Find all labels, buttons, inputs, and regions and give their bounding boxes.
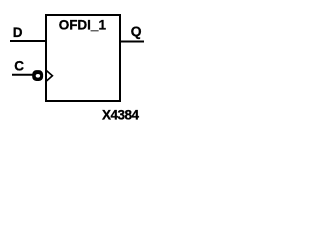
wire C input bbox=[12, 74, 34, 76]
svg-text:Q: Q bbox=[131, 24, 142, 39]
svg-text:X4384: X4384 bbox=[102, 108, 140, 123]
wire D input bbox=[10, 40, 46, 42]
svg-text:D: D bbox=[13, 25, 23, 40]
flip-flop body U1 (OFDI_1) bbox=[46, 15, 120, 101]
svg-text:OFDI_1: OFDI_1 bbox=[59, 17, 107, 32]
svg-text:C: C bbox=[14, 59, 24, 74]
wire Q output bbox=[119, 41, 144, 43]
clock wedge bbox=[46, 70, 53, 82]
inversion bubble on C bbox=[32, 70, 43, 81]
